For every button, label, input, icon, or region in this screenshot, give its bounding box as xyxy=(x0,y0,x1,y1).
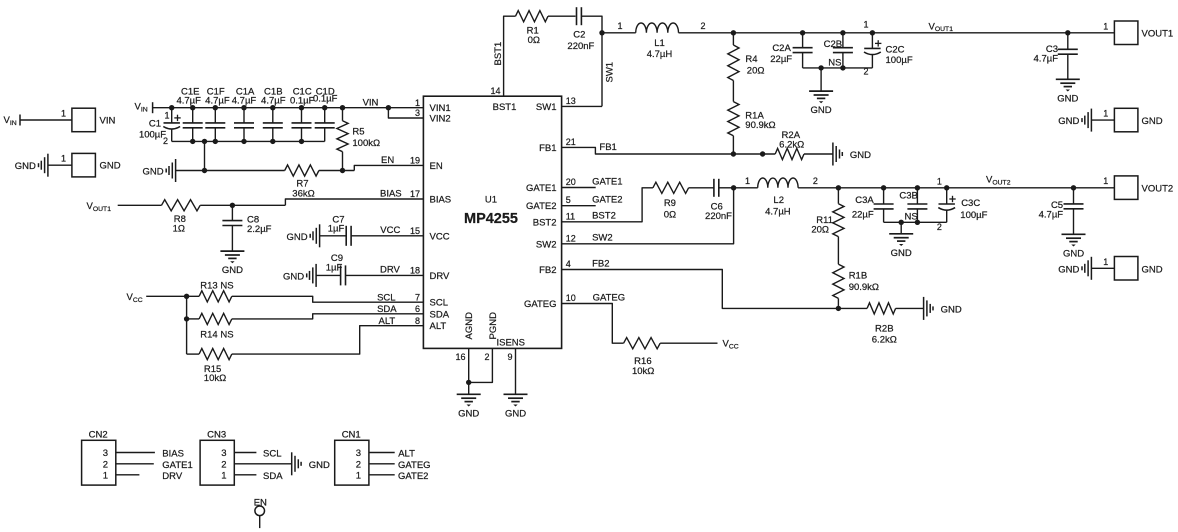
ground ISENS xyxy=(504,393,528,395)
svg-text:4.7µF: 4.7µF xyxy=(1034,54,1059,65)
capacitor C1C 0.1µF xyxy=(299,105,304,110)
wire VIN port to VIN box xyxy=(20,119,72,121)
svg-text:SDA: SDA xyxy=(430,309,450,320)
wire GATE1 stub xyxy=(562,187,596,189)
svg-text:GND: GND xyxy=(850,150,871,161)
svg-text:0Ω: 0Ω xyxy=(664,210,676,221)
node SW2 xyxy=(731,185,736,190)
svg-text:1: 1 xyxy=(1103,176,1108,186)
resistor R9 0ohm xyxy=(653,182,689,193)
wire FB1 from pin 21 xyxy=(562,147,776,154)
wire CN1 pin1 xyxy=(369,474,395,476)
inductor L1 4.7uH xyxy=(636,23,679,33)
svg-text:8: 8 xyxy=(415,316,420,326)
wire PGND pin 2 xyxy=(469,348,493,382)
wire VIN rail xyxy=(153,107,424,109)
wire R13 to SCL xyxy=(232,296,424,302)
svg-text:5: 5 xyxy=(566,195,571,205)
svg-text:DRV: DRV xyxy=(162,471,183,482)
svg-text:3: 3 xyxy=(356,448,361,459)
wire GND port to GND box xyxy=(48,164,72,166)
resistor R16 10k xyxy=(624,338,661,349)
svg-text:1: 1 xyxy=(617,21,622,31)
svg-text:4.7µH: 4.7µH xyxy=(765,207,791,218)
wire FB2 from pin 4 xyxy=(562,270,839,309)
ground cap group 2 xyxy=(900,222,902,234)
svg-text:2: 2 xyxy=(221,459,226,470)
port GND at cap bank xyxy=(175,159,177,182)
svg-text:EN: EN xyxy=(430,161,443,172)
svg-text:20Ω: 20Ω xyxy=(747,66,765,77)
svg-text:4.7µH: 4.7µH xyxy=(647,49,673,60)
svg-text:C2B: C2B xyxy=(824,39,842,50)
wire node to L2 xyxy=(734,187,758,189)
svg-text:6.2kΩ: 6.2kΩ xyxy=(872,334,897,345)
svg-text:AGND: AGND xyxy=(464,312,475,340)
svg-text:SW2: SW2 xyxy=(536,239,557,250)
svg-text:18: 18 xyxy=(410,266,420,276)
svg-text:VIN: VIN xyxy=(363,97,379,108)
wire R14 to SDA xyxy=(232,314,424,319)
svg-text:GND: GND xyxy=(100,161,121,172)
svg-text:100µF: 100µF xyxy=(139,129,166,140)
svg-text:GND: GND xyxy=(941,304,962,315)
port GND at C9 xyxy=(315,264,317,287)
svg-text:1: 1 xyxy=(61,109,66,119)
svg-text:GND: GND xyxy=(1142,116,1163,127)
resistor R14 NS xyxy=(199,313,232,324)
svg-text:EN: EN xyxy=(381,155,394,166)
svg-text:GATE1: GATE1 xyxy=(526,183,556,194)
svg-text:FB1: FB1 xyxy=(599,142,616,153)
svg-text:CN3: CN3 xyxy=(207,430,226,441)
wire CN3 pin2 to GND xyxy=(234,463,291,465)
wire C6 to node 1 xyxy=(719,187,734,189)
svg-text:2: 2 xyxy=(813,176,818,186)
svg-text:GND: GND xyxy=(458,408,479,419)
node AGND PGND xyxy=(466,380,471,385)
svg-text:2: 2 xyxy=(700,21,705,31)
svg-text:1: 1 xyxy=(415,98,420,108)
svg-text:R4: R4 xyxy=(745,54,757,65)
svg-text:SCL: SCL xyxy=(263,449,281,460)
wire C2 to SW1 node xyxy=(581,16,602,106)
wire C7 to VCC pin xyxy=(351,235,423,237)
wire VCC branch down 2 xyxy=(186,319,188,354)
svg-text:GND: GND xyxy=(1058,264,1079,275)
capacitor C3A 22uF xyxy=(881,185,886,190)
svg-text:SDA: SDA xyxy=(263,471,283,482)
connector GND box 2 xyxy=(1114,257,1138,281)
capacitor C1 100uF xyxy=(169,105,174,110)
svg-text:0.1µF: 0.1µF xyxy=(290,96,315,107)
svg-text:NS: NS xyxy=(828,57,841,68)
wire R7 to EN xyxy=(319,170,354,172)
resistor R11 20ohm xyxy=(836,185,841,190)
svg-text:VIN: VIN xyxy=(100,116,116,127)
svg-text:100µF: 100µF xyxy=(960,210,987,221)
svg-text:10kΩ: 10kΩ xyxy=(632,366,654,377)
svg-text:GATEG: GATEG xyxy=(398,460,431,471)
svg-text:ISENS: ISENS xyxy=(497,338,526,349)
ground C3 xyxy=(1056,78,1080,80)
svg-text:9: 9 xyxy=(507,352,512,362)
capacitor C2C 100uF xyxy=(870,30,875,35)
wire R9 to C6 xyxy=(689,187,714,189)
port GND at GND box 1 xyxy=(1090,109,1092,132)
capacitor C3 4.7uF xyxy=(1065,30,1070,35)
wire R1 to C2 xyxy=(548,15,576,17)
wire CN3 pin1 xyxy=(234,474,256,476)
wire CN1 pin3 xyxy=(369,452,395,454)
wire GATE2 stub xyxy=(562,205,596,207)
svg-text:20: 20 xyxy=(566,177,576,187)
svg-text:90.9kΩ: 90.9kΩ xyxy=(745,120,775,131)
svg-text:GND: GND xyxy=(505,408,526,419)
resistor R8 1ohm xyxy=(162,200,201,211)
svg-text:14: 14 xyxy=(490,86,500,96)
wire BST1 pin 14 up xyxy=(504,16,516,96)
wire CN2 pin3 xyxy=(116,452,155,454)
capacitor C8 2.2uF xyxy=(231,205,233,220)
connector CN3 xyxy=(200,440,234,485)
svg-text:20Ω: 20Ω xyxy=(811,224,829,235)
svg-text:0Ω: 0Ω xyxy=(528,35,540,46)
svg-text:19: 19 xyxy=(410,156,420,166)
svg-text:1: 1 xyxy=(745,176,750,186)
svg-text:GATE1: GATE1 xyxy=(162,460,192,471)
node FB2 xyxy=(836,306,841,311)
svg-text:GND: GND xyxy=(1057,93,1078,104)
svg-text:1: 1 xyxy=(1103,109,1108,119)
wire L1 to VOUT1 rail xyxy=(679,32,1115,34)
svg-text:L2: L2 xyxy=(773,195,784,206)
svg-text:FB2: FB2 xyxy=(592,258,609,269)
connector CN2 xyxy=(82,440,116,485)
svg-text:R14 NS: R14 NS xyxy=(200,329,233,340)
svg-text:BST2: BST2 xyxy=(533,217,557,228)
capacitor C2A 22uF xyxy=(800,30,805,35)
resistor R1B 90.9k xyxy=(837,237,839,265)
svg-text:GATE2: GATE2 xyxy=(526,201,556,212)
svg-text:FB2: FB2 xyxy=(539,265,556,276)
svg-text:1: 1 xyxy=(221,470,226,481)
svg-text:GATE1: GATE1 xyxy=(592,176,622,187)
node SW1 xyxy=(599,30,604,35)
resistor R15 10k xyxy=(187,353,200,355)
svg-text:1Ω: 1Ω xyxy=(173,224,185,235)
port GND at CN3 xyxy=(291,452,293,475)
svg-text:100µF: 100µF xyxy=(886,55,913,66)
svg-text:ALT: ALT xyxy=(398,449,415,460)
svg-text:22µF: 22µF xyxy=(770,54,792,65)
connector CN1 xyxy=(335,440,369,485)
svg-text:4: 4 xyxy=(566,259,571,269)
svg-text:ALT: ALT xyxy=(379,316,396,327)
svg-text:6.2kΩ: 6.2kΩ xyxy=(779,139,804,150)
wire SW2 from pin 12 xyxy=(562,188,734,244)
svg-text:GND: GND xyxy=(142,167,163,178)
svg-text:DRV: DRV xyxy=(430,271,451,282)
svg-text:R9: R9 xyxy=(664,198,676,209)
wire CN1 pin2 xyxy=(369,463,395,465)
svg-text:SW2: SW2 xyxy=(592,233,613,244)
capacitor C1B 4.7µF xyxy=(270,105,275,110)
ground AGND xyxy=(457,393,481,395)
svg-text:DRV: DRV xyxy=(380,265,401,276)
svg-text:GND: GND xyxy=(283,271,304,282)
svg-text:U1: U1 xyxy=(485,195,497,206)
capacitor C1E 4.7µF xyxy=(190,105,195,110)
svg-text:90.9kΩ: 90.9kΩ xyxy=(849,282,879,293)
svg-text:BIAS: BIAS xyxy=(380,188,402,199)
svg-text:4.7µF: 4.7µF xyxy=(205,96,230,107)
wire L2 to VOUT2 rail xyxy=(798,187,1114,189)
svg-text:VCC: VCC xyxy=(380,225,400,236)
svg-text:1: 1 xyxy=(1103,21,1108,31)
svg-text:1µF: 1µF xyxy=(326,262,343,273)
resistor R2B 6.2k xyxy=(838,307,867,309)
svg-text:11: 11 xyxy=(566,211,575,221)
svg-text:R1B: R1B xyxy=(849,270,867,281)
svg-text:4.7µF: 4.7µF xyxy=(232,96,257,107)
svg-text:GND: GND xyxy=(1063,248,1084,259)
svg-text:C1: C1 xyxy=(149,119,161,130)
svg-text:BIAS: BIAS xyxy=(162,449,184,460)
ground C5 xyxy=(1062,233,1086,235)
svg-text:VOUT2: VOUT2 xyxy=(1142,183,1174,194)
svg-text:GATE2: GATE2 xyxy=(398,471,428,482)
resistor R2A 6.2k xyxy=(775,148,804,159)
svg-text:3: 3 xyxy=(103,448,108,459)
svg-text:16: 16 xyxy=(455,352,465,362)
wire R8 to BIAS xyxy=(200,204,285,206)
svg-text:1: 1 xyxy=(61,154,66,164)
svg-text:VCC: VCC xyxy=(430,231,450,242)
wire VCC to R13 xyxy=(146,295,199,297)
svg-text:ALT: ALT xyxy=(430,321,447,332)
svg-text:3: 3 xyxy=(221,448,226,459)
svg-text:C3A: C3A xyxy=(855,195,874,206)
svg-text:22µF: 22µF xyxy=(852,210,874,221)
svg-text:15: 15 xyxy=(410,226,420,236)
svg-text:1: 1 xyxy=(356,470,361,481)
svg-text:7: 7 xyxy=(415,292,420,302)
wire SW1 pin 13 stub xyxy=(562,105,602,107)
port GND (input) xyxy=(47,154,49,177)
resistor R13 NS xyxy=(199,291,232,302)
wire SW1 node to L1 xyxy=(602,32,636,34)
connector GND box 1 xyxy=(1114,108,1138,132)
capacitor C6 220nF xyxy=(713,179,715,197)
svg-text:GND: GND xyxy=(15,161,36,172)
svg-text:4.7µF: 4.7µF xyxy=(176,96,201,107)
svg-text:SCL: SCL xyxy=(430,298,448,309)
capacitor C1F 4.7µF xyxy=(213,105,218,110)
port GND at R2B xyxy=(923,297,925,320)
connector GND box xyxy=(72,153,96,177)
svg-text:R5: R5 xyxy=(352,127,364,138)
resistor R1 0ohm xyxy=(516,11,549,22)
wire BST2 from pin 11 xyxy=(562,188,653,222)
svg-text:GND: GND xyxy=(222,265,243,276)
svg-text:GND: GND xyxy=(811,105,832,116)
svg-text:R2B: R2B xyxy=(875,324,893,335)
port GND at R2A xyxy=(832,143,834,166)
resistor R5 100k xyxy=(340,105,345,110)
svg-text:1: 1 xyxy=(164,111,169,121)
svg-text:VIN2: VIN2 xyxy=(430,114,451,125)
capacitor C1D 0.1µF xyxy=(322,105,327,110)
wire CN3 pin3 xyxy=(234,452,256,454)
svg-text:4.7µF: 4.7µF xyxy=(1039,209,1064,220)
svg-text:1: 1 xyxy=(937,177,942,187)
svg-text:GND: GND xyxy=(1142,264,1163,275)
wire GND row xyxy=(176,170,285,172)
svg-text:GND: GND xyxy=(309,460,330,471)
wire cap group 2 bottom rail xyxy=(884,221,947,223)
wire C9 to DRV pin xyxy=(346,274,424,276)
ground cap group 1 xyxy=(820,68,822,91)
svg-text:3: 3 xyxy=(415,108,420,118)
svg-text:GND: GND xyxy=(891,248,912,259)
connector VIN box xyxy=(72,108,96,132)
svg-text:0.1µF: 0.1µF xyxy=(313,94,338,105)
svg-text:2: 2 xyxy=(937,222,942,232)
svg-text:GATEG: GATEG xyxy=(524,299,557,310)
capacitor C1A 4.7µF xyxy=(241,105,246,110)
resistor R4 20ohm xyxy=(731,30,736,35)
wire cap bank bottom rail xyxy=(172,140,325,142)
resistor R7 36k xyxy=(285,165,319,176)
svg-text:100kΩ: 100kΩ xyxy=(352,138,380,149)
svg-text:SW1: SW1 xyxy=(604,62,615,83)
wire cap group 1 bottom rail xyxy=(803,67,873,69)
svg-text:10kΩ: 10kΩ xyxy=(204,373,226,384)
svg-text:GND: GND xyxy=(1058,116,1079,127)
node VIN2 branch xyxy=(386,105,391,110)
svg-text:L1: L1 xyxy=(654,38,665,49)
svg-text:CN1: CN1 xyxy=(342,430,361,441)
svg-text:FB1: FB1 xyxy=(539,143,556,154)
port GND at C7 xyxy=(319,224,321,247)
capacitor C3C 100uF xyxy=(944,185,949,190)
svg-text:MP4255: MP4255 xyxy=(464,211,518,227)
wire R16 to VCC xyxy=(660,342,717,344)
svg-text:R13 NS: R13 NS xyxy=(200,280,233,291)
svg-text:SDA: SDA xyxy=(377,304,397,315)
svg-text:2.2µF: 2.2µF xyxy=(247,224,272,235)
wire ISENS pin 9 xyxy=(515,348,517,394)
wire R2B to GND port xyxy=(896,307,924,309)
svg-text:CN2: CN2 xyxy=(89,430,108,441)
svg-text:GATEG: GATEG xyxy=(593,292,626,303)
port GND at GND box 2 xyxy=(1090,257,1092,280)
svg-text:2: 2 xyxy=(356,459,361,470)
wire R15 to ALT xyxy=(232,326,424,354)
svg-text:C2A: C2A xyxy=(772,43,791,54)
node FB1 xyxy=(731,151,736,156)
capacitor C9 1uF xyxy=(316,274,341,276)
capacitor C5 4.7uF xyxy=(1071,185,1076,190)
svg-text:BST2: BST2 xyxy=(592,211,616,222)
svg-text:12: 12 xyxy=(566,233,576,243)
svg-text:BIAS: BIAS xyxy=(430,195,452,206)
svg-text:220nF: 220nF xyxy=(567,41,594,52)
wire VCC branch down xyxy=(186,296,188,319)
node cap bank gnd xyxy=(202,139,207,144)
svg-text:C2C: C2C xyxy=(886,45,905,56)
svg-text:13: 13 xyxy=(566,96,576,106)
capacitor C7 1uF xyxy=(320,235,347,237)
svg-text:BST1: BST1 xyxy=(493,102,517,113)
svg-text:VOUT1: VOUT1 xyxy=(1142,28,1174,39)
wire AGND pin 16 xyxy=(468,348,470,394)
svg-text:SCL: SCL xyxy=(377,292,395,303)
svg-text:6: 6 xyxy=(415,304,420,314)
svg-text:10: 10 xyxy=(566,293,576,303)
svg-text:17: 17 xyxy=(410,189,420,199)
svg-text:1: 1 xyxy=(103,470,108,481)
wire GATEG from pin 10 xyxy=(562,304,624,344)
svg-text:1µF: 1µF xyxy=(328,223,345,234)
capacitor C2 220nF xyxy=(576,7,578,25)
svg-text:21: 21 xyxy=(566,137,576,147)
svg-text:BST1: BST1 xyxy=(493,42,504,66)
svg-text:C3B: C3B xyxy=(899,190,917,201)
wire R2A to GND port xyxy=(804,153,833,155)
svg-text:C3C: C3C xyxy=(961,198,980,209)
svg-text:1: 1 xyxy=(1103,257,1108,267)
svg-text:SW1: SW1 xyxy=(536,102,557,113)
capacitor C3B NS xyxy=(915,185,920,190)
resistor R1A 90.9k xyxy=(732,81,734,102)
svg-text:2: 2 xyxy=(103,459,108,470)
svg-text:1: 1 xyxy=(863,20,868,30)
capacitor C2B NS xyxy=(840,30,845,35)
IC U1 MP4255 body xyxy=(423,96,561,348)
svg-text:220nF: 220nF xyxy=(705,211,732,222)
wire VOUT1 to R8 xyxy=(118,204,162,206)
inductor L2 4.7uH xyxy=(758,178,798,188)
svg-text:GATE2: GATE2 xyxy=(592,195,622,206)
ground C8 xyxy=(220,250,244,252)
svg-text:36kΩ: 36kΩ xyxy=(292,188,314,199)
svg-text:4.7µF: 4.7µF xyxy=(261,96,286,107)
svg-text:C2: C2 xyxy=(573,30,585,41)
svg-text:PGND: PGND xyxy=(488,312,499,340)
wire CN2 pin2 xyxy=(116,463,154,465)
svg-text:GND: GND xyxy=(286,232,307,243)
svg-text:2: 2 xyxy=(484,352,489,362)
wire CN2 pin1 xyxy=(116,474,140,476)
